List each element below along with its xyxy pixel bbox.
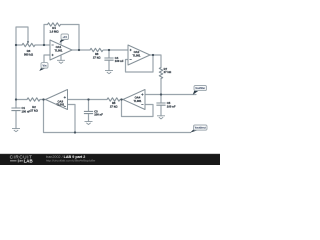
svg-text:100 nF: 100 nF [94,113,103,117]
svg-text:100 nF: 100 nF [22,109,31,113]
svg-text:TL081: TL081 [56,103,64,107]
svg-text:TL081: TL081 [55,48,63,52]
svg-text:LAB: LAB [24,159,33,164]
svg-text:27 kΩ: 27 kΩ [110,104,118,108]
svg-text:TL081: TL081 [133,53,141,57]
svg-text:Voutfilter: Voutfilter [195,87,205,90]
svg-text:27 kΩ: 27 kΩ [93,55,101,59]
svg-text:100 nF: 100 nF [115,59,124,63]
svg-text:TL081: TL081 [134,99,142,103]
svg-text:27 kΩ: 27 kΩ [30,108,38,112]
svg-text:http://circuitlab.com/c/8ka4s6: http://circuitlab.com/c/8ka4s6bgdo8w [46,159,96,163]
svg-text:Voutdirect: Voutdirect [195,127,206,130]
svg-text:Vin: Vin [43,63,47,67]
svg-text:27 kΩ: 27 kΩ [164,70,172,74]
svg-text:1.6 MΩ: 1.6 MΩ [49,29,59,33]
svg-text:100 nF: 100 nF [167,104,176,108]
svg-text:+15: +15 [63,35,68,39]
svg-text:560 kΩ: 560 kΩ [24,52,34,56]
